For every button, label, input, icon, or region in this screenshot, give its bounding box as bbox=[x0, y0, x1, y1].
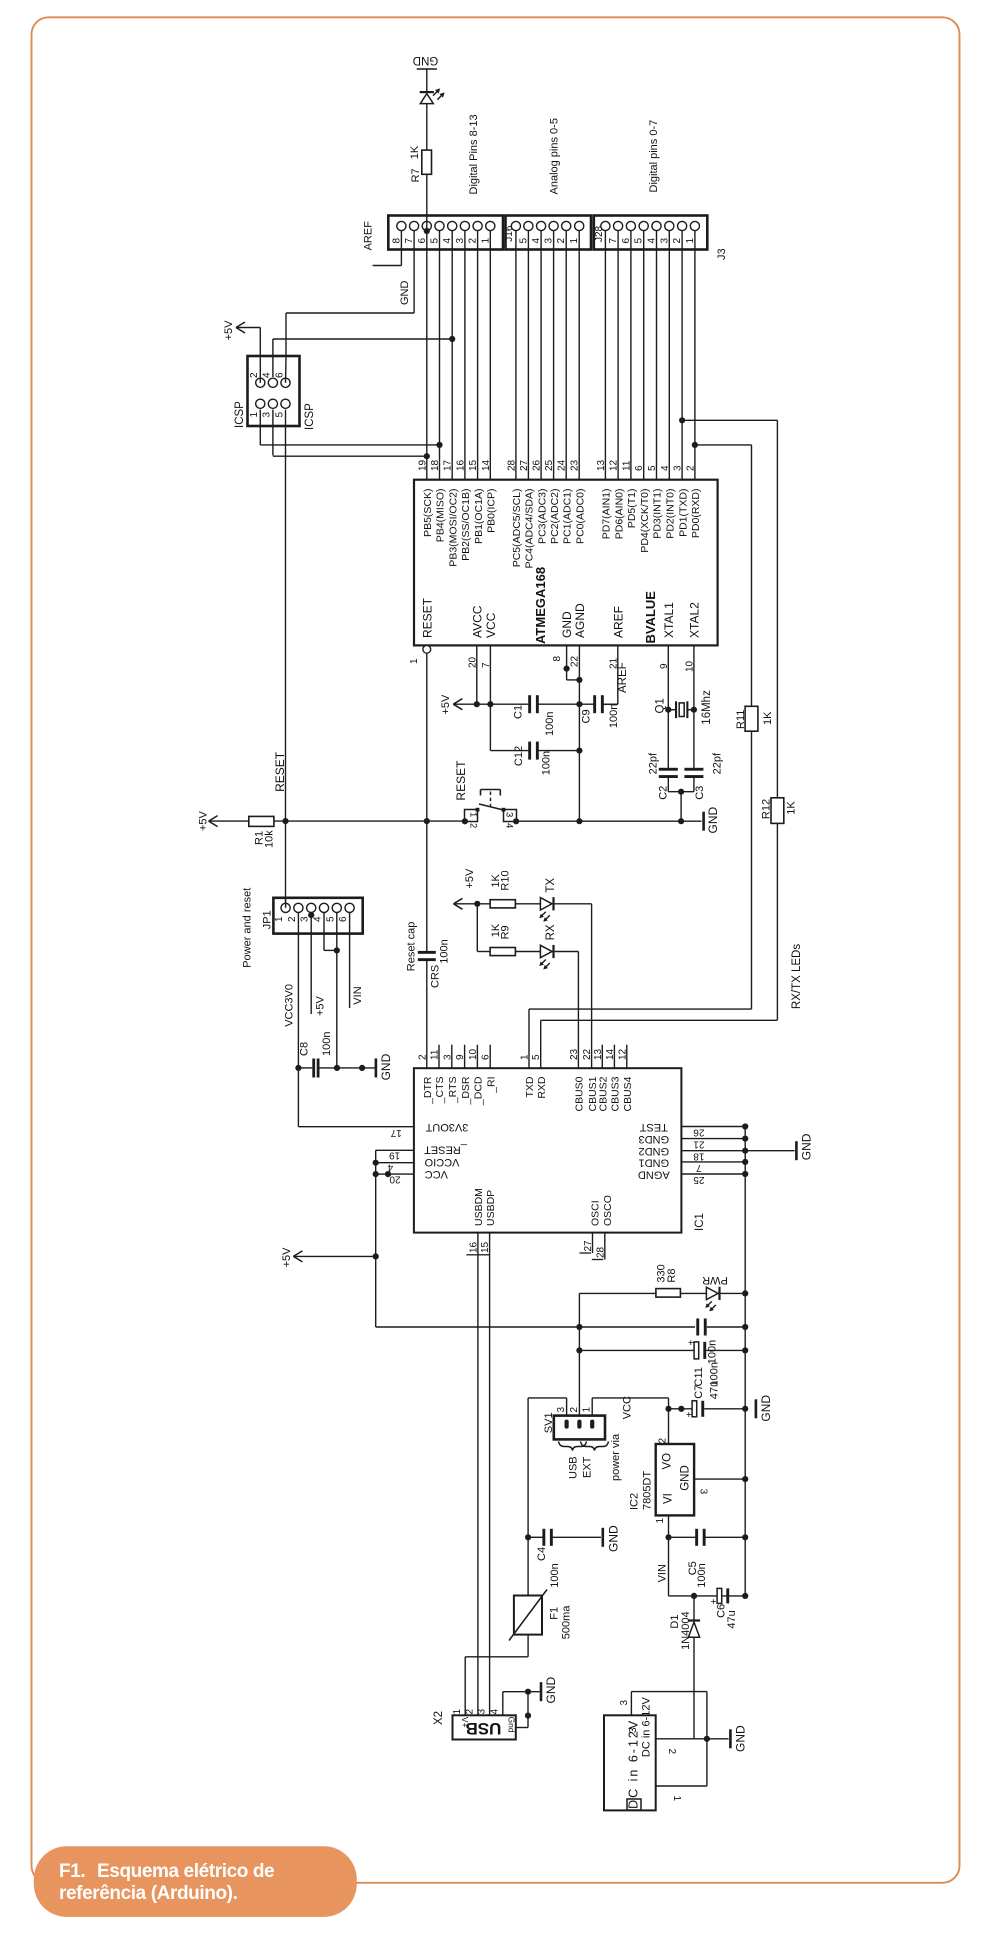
svg-text:Digital Pins 8-13: Digital Pins 8-13 bbox=[468, 114, 480, 194]
wire header pin7 to ICSP pin6 (GND) bbox=[413, 231, 415, 313]
svg-text:3: 3 bbox=[628, 1727, 639, 1733]
capacitor C6 47u bbox=[717, 1588, 722, 1603]
capacitor C2 22pf bbox=[659, 768, 678, 771]
svg-text:PD5(T1): PD5(T1) bbox=[626, 489, 638, 529]
svg-text:VCC: VCC bbox=[622, 1396, 634, 1419]
wire SV1 pin1 VCC to IC2 VO bbox=[591, 1398, 593, 1416]
svg-text:DC in 6-12V: DC in 6-12V bbox=[641, 1697, 653, 1758]
svg-text:RESET: RESET bbox=[454, 760, 468, 801]
svg-text:19: 19 bbox=[389, 1150, 401, 1161]
IC1 pin 19 _RESET bbox=[376, 1149, 414, 1151]
svg-text:F1: F1 bbox=[548, 1607, 560, 1620]
svg-text:RX: RX bbox=[545, 924, 557, 940]
svg-text:23: 23 bbox=[570, 459, 581, 471]
svg-text:16Mhz: 16Mhz bbox=[701, 690, 713, 725]
IC1 pin 26 TEST bbox=[681, 1126, 745, 1128]
svg-text:2: 2 bbox=[417, 1054, 428, 1060]
IC1 pin 18 GND2 bbox=[681, 1150, 745, 1152]
svg-text:AREF: AREF bbox=[363, 221, 375, 251]
caption badge F1 bbox=[34, 1846, 357, 1917]
svg-text:VO: VO bbox=[662, 1453, 674, 1470]
svg-text:3: 3 bbox=[619, 1700, 630, 1706]
svg-text:+: + bbox=[687, 1340, 698, 1346]
svg-text:1: 1 bbox=[520, 1054, 531, 1060]
svg-text:_RI: _RI bbox=[485, 1077, 497, 1094]
svg-text:AREF: AREF bbox=[617, 662, 629, 693]
wire JP1 pin3 +5V stub bbox=[310, 913, 312, 1015]
svg-text:14: 14 bbox=[481, 459, 492, 471]
svg-text:+5V: +5V bbox=[464, 868, 476, 889]
svg-text:13: 13 bbox=[596, 459, 607, 471]
svg-text:VCCIO: VCCIO bbox=[424, 1156, 459, 1168]
svg-text:PD1(TXD): PD1(TXD) bbox=[677, 489, 689, 537]
svg-text:25: 25 bbox=[693, 1174, 705, 1185]
header pin circle 3 bbox=[460, 221, 469, 230]
capacitor C1 100n bbox=[528, 695, 531, 713]
svg-text:1: 1 bbox=[274, 916, 285, 922]
svg-text:GND: GND bbox=[607, 1525, 621, 1552]
wire RESET to JP1 pin1 bbox=[285, 821, 287, 908]
svg-text:3: 3 bbox=[504, 812, 515, 817]
capacitor C4 100n bbox=[525, 1534, 531, 1540]
wires USBDM/USBDP down to USB connector bbox=[477, 1233, 479, 1716]
LED PWR bbox=[680, 1292, 706, 1294]
connector JP1 (6-pin header) bbox=[273, 898, 362, 934]
ATMEGA pin 9 XTAL1 wire bbox=[667, 645, 669, 769]
ground GND (DC jack) bbox=[707, 1738, 729, 1740]
supply +5V arrow at IC1 bbox=[293, 1251, 302, 1257]
gnd bus vertical right bbox=[744, 1127, 746, 1596]
header pin circle 7 bbox=[410, 221, 419, 230]
svg-text:GND: GND bbox=[413, 54, 439, 66]
ICSP pin circle 1 (bottom row) bbox=[256, 399, 265, 408]
resistor R12 1K bbox=[771, 798, 784, 824]
fuse F1 500ma bbox=[527, 1537, 529, 1595]
JP1 pin circle 4 bbox=[319, 903, 328, 912]
resistor R8 330 bbox=[656, 1289, 681, 1298]
IC ATMEGA168 body bbox=[414, 480, 718, 646]
svg-text:100n: 100n bbox=[544, 712, 556, 736]
svg-text:RX/TX LEDs: RX/TX LEDs bbox=[791, 944, 803, 1009]
wire DC jack pin3 loop bbox=[630, 1692, 632, 1716]
svg-text:PC5(ADC5/SCL): PC5(ADC5/SCL) bbox=[511, 489, 523, 568]
svg-text:Gnd: Gnd bbox=[507, 1717, 517, 1733]
svg-text:USB: USB bbox=[568, 1456, 580, 1479]
svg-text:Reset cap: Reset cap bbox=[406, 922, 418, 972]
ICSP pin circle 2 (top row) bbox=[256, 378, 265, 387]
wire R11 to IC1 TXD bbox=[751, 731, 753, 1009]
svg-text:9: 9 bbox=[659, 663, 670, 669]
wires header J1 analog pins down to ATMEGA PC pins bbox=[515, 231, 517, 480]
svg-text:JP1: JP1 bbox=[262, 910, 274, 929]
wire F1 to USB V+ bbox=[527, 1635, 529, 1657]
junction dot at header pin6 / R7 bbox=[424, 228, 430, 234]
svg-text:7: 7 bbox=[696, 1162, 702, 1173]
svg-text:4: 4 bbox=[660, 465, 671, 471]
JP1 pin circle 5 bbox=[332, 903, 341, 912]
svg-text:IC1: IC1 bbox=[694, 1213, 706, 1231]
svg-text:GND: GND bbox=[680, 1465, 692, 1491]
svg-text:PB1(OC1A): PB1(OC1A) bbox=[473, 489, 485, 544]
capacitor C9 100n bbox=[593, 695, 596, 713]
header pin circle 2 bbox=[473, 221, 482, 230]
IC1 n/c pin stubs top bbox=[438, 1045, 440, 1069]
svg-text:AGND: AGND bbox=[638, 1169, 670, 1181]
svg-text:_DTR: _DTR bbox=[422, 1076, 434, 1105]
svg-text:100n: 100n bbox=[321, 1032, 333, 1056]
wire USB pin4 to gnd bbox=[502, 1692, 504, 1716]
capacitor C3 22pf bbox=[684, 768, 703, 771]
svg-text:1: 1 bbox=[452, 1709, 463, 1715]
svg-text:C1: C1 bbox=[513, 705, 525, 719]
svg-text:6: 6 bbox=[634, 465, 645, 471]
IC1 pin 20 VCC bbox=[376, 1173, 414, 1175]
wire switch to gnd bbox=[517, 820, 702, 822]
svg-text:CBUS0: CBUS0 bbox=[574, 1076, 586, 1111]
wire gnd vertical (C1/C12/C9 common) bbox=[578, 704, 580, 821]
wires header J3 pins down to ATMEGA PD pins bbox=[604, 231, 606, 480]
wire VCC/reset join to +5V bbox=[375, 1150, 377, 1327]
svg-text:5: 5 bbox=[325, 916, 336, 922]
svg-text:5: 5 bbox=[274, 412, 285, 418]
svg-text:RESET: RESET bbox=[273, 751, 287, 792]
wire +5V rail bbox=[453, 703, 530, 705]
svg-text:RESET: RESET bbox=[420, 597, 434, 638]
svg-text:PB3(MOSI/OC2): PB3(MOSI/OC2) bbox=[447, 489, 459, 567]
IC1 pin 25 AGND bbox=[681, 1173, 745, 1175]
svg-text:1K: 1K bbox=[409, 145, 421, 159]
svg-text:PD0(RXD): PD0(RXD) bbox=[690, 489, 702, 539]
wire LED to R7 bbox=[426, 104, 428, 151]
svg-text:2: 2 bbox=[685, 465, 696, 471]
svg-text:C9: C9 bbox=[581, 709, 593, 723]
JP1 pin circle 6 bbox=[345, 903, 354, 912]
svg-text:power via: power via bbox=[610, 1433, 622, 1481]
svg-text:GND: GND bbox=[706, 807, 720, 834]
svg-text:27: 27 bbox=[583, 1240, 594, 1252]
supply +5V arrow at AVCC rail bbox=[453, 699, 462, 705]
ATMEGA pin 22 AGND wire bbox=[578, 645, 580, 704]
svg-text:GND: GND bbox=[799, 1133, 813, 1160]
svg-text:3V3OUT: 3V3OUT bbox=[425, 1121, 468, 1133]
IC1 FT232 body bbox=[414, 1068, 682, 1232]
svg-text:8: 8 bbox=[552, 656, 563, 662]
svg-text:26: 26 bbox=[532, 459, 543, 471]
svg-text:1: 1 bbox=[582, 1407, 593, 1413]
svg-text:IC2: IC2 bbox=[629, 1493, 641, 1510]
svg-text:C7: C7 bbox=[693, 1385, 705, 1399]
JP1 pin circle 3 bbox=[307, 903, 316, 912]
svg-text:GND: GND bbox=[734, 1725, 748, 1752]
wire GND to LED bbox=[426, 69, 428, 92]
svg-text:TX: TX bbox=[545, 878, 557, 893]
supply +5V arrow at RX/TX leds bbox=[454, 898, 463, 904]
header pin circle 4 bbox=[448, 221, 457, 230]
wire ICSP pin1 to ATMEGA pin18 wire bbox=[259, 410, 261, 445]
svg-text:PD7(AIN1): PD7(AIN1) bbox=[601, 489, 613, 540]
svg-text:26: 26 bbox=[693, 1126, 705, 1137]
svg-text:PC3(ADC3): PC3(ADC3) bbox=[536, 489, 548, 544]
JP1 pin circle 2 bbox=[294, 903, 303, 912]
diode D1 1N4004 bbox=[693, 1596, 695, 1620]
capacitor C7 47u (row2) bbox=[579, 1349, 696, 1351]
svg-text:2: 2 bbox=[287, 916, 298, 922]
svg-text:R11: R11 bbox=[735, 710, 747, 729]
svg-text:Q1: Q1 bbox=[655, 698, 667, 713]
wire SV1 pin3 to USB power (C4/F1) bbox=[566, 1398, 568, 1416]
svg-text:VIN: VIN bbox=[657, 1564, 669, 1582]
IC1 pin 7 GND1 bbox=[681, 1161, 745, 1163]
svg-text:6: 6 bbox=[274, 372, 285, 378]
svg-text:ATMEGA168: ATMEGA168 bbox=[533, 567, 548, 644]
svg-text:+5V: +5V bbox=[315, 995, 327, 1016]
svg-text:3: 3 bbox=[673, 465, 684, 471]
wire DC jack pin1 row bbox=[656, 1785, 707, 1787]
svg-text:22: 22 bbox=[582, 1048, 593, 1060]
SV1 pin 1 bbox=[590, 1420, 594, 1429]
svg-text:USBDP: USBDP bbox=[485, 1190, 497, 1226]
wire VIN row to C6 and gnd bbox=[669, 1595, 746, 1597]
svg-text:10k: 10k bbox=[263, 830, 275, 848]
svg-text:23: 23 bbox=[569, 1048, 580, 1060]
svg-text:28: 28 bbox=[506, 459, 517, 471]
svg-text:GND1: GND1 bbox=[639, 1156, 670, 1168]
connector SV1 (power select jumper) bbox=[554, 1416, 605, 1440]
capacitor C10 47u (VCC) bbox=[669, 1408, 695, 1410]
svg-text:4: 4 bbox=[387, 1162, 393, 1173]
svg-text:24: 24 bbox=[557, 459, 568, 471]
connector J1 analog pins 0-5 (6-pin header) bbox=[506, 216, 592, 250]
svg-text:VCC: VCC bbox=[484, 612, 498, 638]
svg-text:15: 15 bbox=[468, 459, 479, 471]
svg-text:OSCO: OSCO bbox=[602, 1195, 614, 1226]
wire +5V to R10 bbox=[454, 903, 491, 905]
svg-text:1: 1 bbox=[671, 1796, 682, 1802]
resistor R7 1K bbox=[422, 150, 432, 174]
svg-text:100n: 100n bbox=[438, 939, 450, 963]
svg-text:100n: 100n bbox=[540, 751, 552, 775]
svg-text:PB4(MISO): PB4(MISO) bbox=[435, 489, 447, 543]
svg-text:GND: GND bbox=[399, 281, 411, 306]
LED D3 (pin13 LED, pointing up) bbox=[420, 91, 434, 93]
svg-text:3: 3 bbox=[262, 412, 273, 418]
svg-text:F1.: F1. bbox=[59, 1861, 85, 1882]
supply +5V arrow at reset pullup bbox=[209, 816, 218, 822]
svg-text:_DCD: _DCD bbox=[473, 1076, 485, 1106]
wire ICSP pin4 to ATMEGA pin16 wire bbox=[272, 339, 274, 377]
svg-text:CRS: CRS bbox=[429, 965, 441, 988]
ground GND (C4) bbox=[602, 1528, 605, 1547]
ICSP pin circle 3 (bottom row) bbox=[268, 399, 277, 408]
wire +5V rail to right gnd bus bbox=[376, 1326, 695, 1328]
wire JP1 pin2 VCC3V0 down to IC1 3V3OUT bbox=[297, 913, 299, 1127]
svg-text:10: 10 bbox=[684, 660, 695, 672]
svg-text:XTAL2: XTAL2 bbox=[687, 602, 701, 638]
ground GND (USB) bbox=[540, 1682, 543, 1701]
svg-text:PB5(SCK): PB5(SCK) bbox=[422, 489, 434, 537]
svg-text:referência (Arduino).: referência (Arduino). bbox=[59, 1883, 237, 1904]
svg-text:ICSP: ICSP bbox=[234, 401, 246, 428]
svg-text:GND: GND bbox=[759, 1395, 773, 1422]
svg-text:OSCI: OSCI bbox=[590, 1200, 602, 1226]
svg-text:2: 2 bbox=[657, 1438, 668, 1444]
LED RX bbox=[515, 951, 540, 953]
svg-text:17: 17 bbox=[443, 459, 454, 471]
ATMEGA pin 20 AVCC wire bbox=[476, 645, 478, 704]
svg-text:18: 18 bbox=[693, 1151, 705, 1162]
svg-text:ICSP: ICSP bbox=[304, 403, 316, 430]
svg-text:Power and reset: Power and reset bbox=[242, 888, 254, 968]
IC1 pin 21 GND3 bbox=[681, 1138, 745, 1140]
svg-text:PC4(ADC4/SDA): PC4(ADC4/SDA) bbox=[524, 489, 536, 569]
wire ICSP pin5 down (RESET net) bbox=[285, 410, 287, 821]
ATMEGA pin 10 XTAL2 wire bbox=[693, 645, 695, 769]
svg-text:3: 3 bbox=[556, 1407, 567, 1413]
wire CRS to IC1 _DTR bbox=[426, 961, 428, 1068]
svg-text:R12: R12 bbox=[761, 799, 773, 819]
wire DC jack pin2 row bbox=[656, 1738, 707, 1740]
connector J3 digital pins 0-7 (8-pin header) bbox=[594, 216, 708, 250]
wire ATMEGA RESET pin down to reset row bbox=[426, 653, 428, 821]
svg-text:11: 11 bbox=[621, 460, 632, 471]
svg-text:7805DT: 7805DT bbox=[641, 1471, 653, 1510]
junction dot JP1 pin3 bbox=[308, 912, 314, 918]
svg-text:PD3(INT1): PD3(INT1) bbox=[652, 489, 664, 539]
svg-text:4: 4 bbox=[504, 823, 515, 828]
capacitor CRS 100n (reset cap) bbox=[418, 951, 436, 954]
braces USB/EXT below SV1 bbox=[559, 1442, 587, 1451]
wire stubs inside ICSP box bbox=[259, 357, 261, 383]
wire RESET through JP1 pin1 circle bbox=[285, 899, 287, 908]
wire C1 to C9 (gnd mid rail) bbox=[537, 703, 595, 705]
svg-text:SV1: SV1 bbox=[543, 1412, 555, 1433]
svg-text:2: 2 bbox=[569, 1407, 580, 1413]
svg-text:1K: 1K bbox=[786, 801, 798, 815]
svg-text:4: 4 bbox=[313, 916, 324, 922]
SV1 pin 3 bbox=[565, 1420, 569, 1429]
svg-text:USB: USB bbox=[465, 1719, 501, 1738]
svg-text:2: 2 bbox=[465, 1709, 476, 1715]
IC1 pin 4 VCCIO bbox=[376, 1162, 414, 1164]
svg-text:22: 22 bbox=[570, 655, 581, 667]
svg-text:AVCC: AVCC bbox=[470, 605, 484, 638]
wire ICSP pin3 to ATMEGA pin19 wire bbox=[272, 410, 274, 456]
svg-text:BVALUE: BVALUE bbox=[643, 591, 658, 644]
svg-text:AREF: AREF bbox=[611, 606, 625, 638]
svg-text:VCC: VCC bbox=[425, 1168, 448, 1180]
svg-text:1: 1 bbox=[409, 658, 420, 664]
wire VCC pin7 down to C12 row bbox=[489, 704, 491, 750]
svg-text:16: 16 bbox=[455, 459, 466, 471]
svg-text:C11: C11 bbox=[693, 1367, 705, 1386]
svg-text:3: 3 bbox=[698, 1489, 709, 1495]
wire IC2 GND pin to bus bbox=[694, 1478, 745, 1480]
ATMEGA pin 8 GND wire bbox=[566, 645, 568, 680]
IC2 7805DT body bbox=[656, 1444, 694, 1515]
svg-text:GND3: GND3 bbox=[639, 1133, 670, 1145]
svg-text:PD6(AIN0): PD6(AIN0) bbox=[613, 489, 625, 540]
wire TX led to IC1 CBUS1 bbox=[555, 903, 592, 905]
svg-text:AGND: AGND bbox=[573, 603, 587, 638]
resistor R1 10k bbox=[249, 816, 274, 826]
SV1 pin 2 bbox=[577, 1420, 581, 1429]
ICSP pin circle 6 (top row) bbox=[281, 378, 290, 387]
svg-text:J3: J3 bbox=[716, 248, 728, 260]
ICSP pin circle 5 (bottom row) bbox=[281, 399, 290, 408]
svg-text:PB0(ICP): PB0(ICP) bbox=[486, 489, 498, 533]
svg-text:GND: GND bbox=[379, 1053, 393, 1080]
svg-text:_RTS: _RTS bbox=[447, 1077, 459, 1105]
LED TX bbox=[515, 903, 540, 905]
svg-text:R7: R7 bbox=[410, 168, 422, 182]
svg-text:PD2(INT0): PD2(INT0) bbox=[665, 489, 677, 539]
svg-text:22pf: 22pf bbox=[647, 752, 659, 774]
svg-text:4: 4 bbox=[262, 372, 273, 378]
svg-text:47u: 47u bbox=[709, 1381, 721, 1399]
connector J2 digital pins 8-13 (8-pin header) bbox=[388, 216, 503, 250]
svg-text:3: 3 bbox=[476, 1709, 487, 1715]
svg-text:VIN: VIN bbox=[352, 986, 364, 1004]
wires header J2 pins 6-1 down to ATMEGA PB pins bbox=[426, 231, 428, 480]
JP1 pin circle 1 bbox=[281, 903, 290, 912]
svg-text:XTAL1: XTAL1 bbox=[662, 602, 676, 638]
svg-text:2: 2 bbox=[249, 372, 260, 378]
wire +5V branch down to R9 bbox=[476, 904, 478, 952]
header pin circle 5 bbox=[435, 221, 444, 230]
svg-text:+5V: +5V bbox=[223, 320, 235, 341]
svg-text:C4: C4 bbox=[536, 1547, 548, 1561]
wire JP1 pin6 VIN stub bbox=[349, 913, 351, 1009]
wire R7 to header J1 pin6 bbox=[426, 174, 428, 232]
svg-text:100n: 100n bbox=[608, 704, 620, 728]
svg-text:5: 5 bbox=[531, 1054, 542, 1060]
svg-text:12: 12 bbox=[609, 459, 620, 471]
svg-text:Analog pins 0-5: Analog pins 0-5 bbox=[549, 118, 561, 194]
svg-text:4: 4 bbox=[490, 1709, 501, 1715]
svg-text:1K: 1K bbox=[762, 711, 774, 725]
svg-text:PC0(ADC0): PC0(ADC0) bbox=[574, 489, 586, 544]
svg-text:47u: 47u bbox=[726, 1610, 738, 1628]
svg-text:_RESET: _RESET bbox=[424, 1143, 468, 1155]
svg-text:CBUS4: CBUS4 bbox=[622, 1076, 634, 1111]
svg-text:22pf: 22pf bbox=[711, 752, 723, 774]
svg-text:5: 5 bbox=[647, 465, 658, 471]
USB shield to gnd bbox=[516, 1727, 528, 1729]
resistor R9 1K bbox=[490, 948, 515, 956]
ATMEGA pin 7 VCC wire bbox=[489, 645, 491, 704]
wire RXD from ATMEGA pin2 to R11 bbox=[695, 444, 752, 446]
capacitor C12 100n bbox=[490, 750, 530, 752]
svg-text:+: + bbox=[709, 1599, 720, 1605]
svg-text:20: 20 bbox=[467, 656, 478, 668]
connector DC jack bbox=[604, 1715, 656, 1810]
svg-text:RXD: RXD bbox=[536, 1076, 548, 1099]
header pin circle 1 bbox=[486, 221, 495, 230]
header pin circle 6 bbox=[422, 221, 431, 230]
svg-text:25: 25 bbox=[544, 459, 555, 471]
wire +5V to R1 bbox=[209, 820, 249, 822]
svg-text:100n: 100n bbox=[549, 1563, 561, 1587]
svg-text:PC2(ADC2): PC2(ADC2) bbox=[549, 489, 561, 544]
svg-text:X2: X2 bbox=[433, 1711, 445, 1725]
wire R12 to IC1 RXD bbox=[776, 823, 778, 1020]
svg-text:CBUS2: CBUS2 bbox=[598, 1076, 610, 1111]
svg-text:_DSR: _DSR bbox=[460, 1076, 472, 1105]
svg-text:17: 17 bbox=[390, 1127, 402, 1138]
svg-text:TEST: TEST bbox=[639, 1121, 667, 1133]
ATMEGA pin 21 AREF wire bbox=[617, 645, 619, 704]
svg-text:USBDM: USBDM bbox=[473, 1188, 485, 1226]
